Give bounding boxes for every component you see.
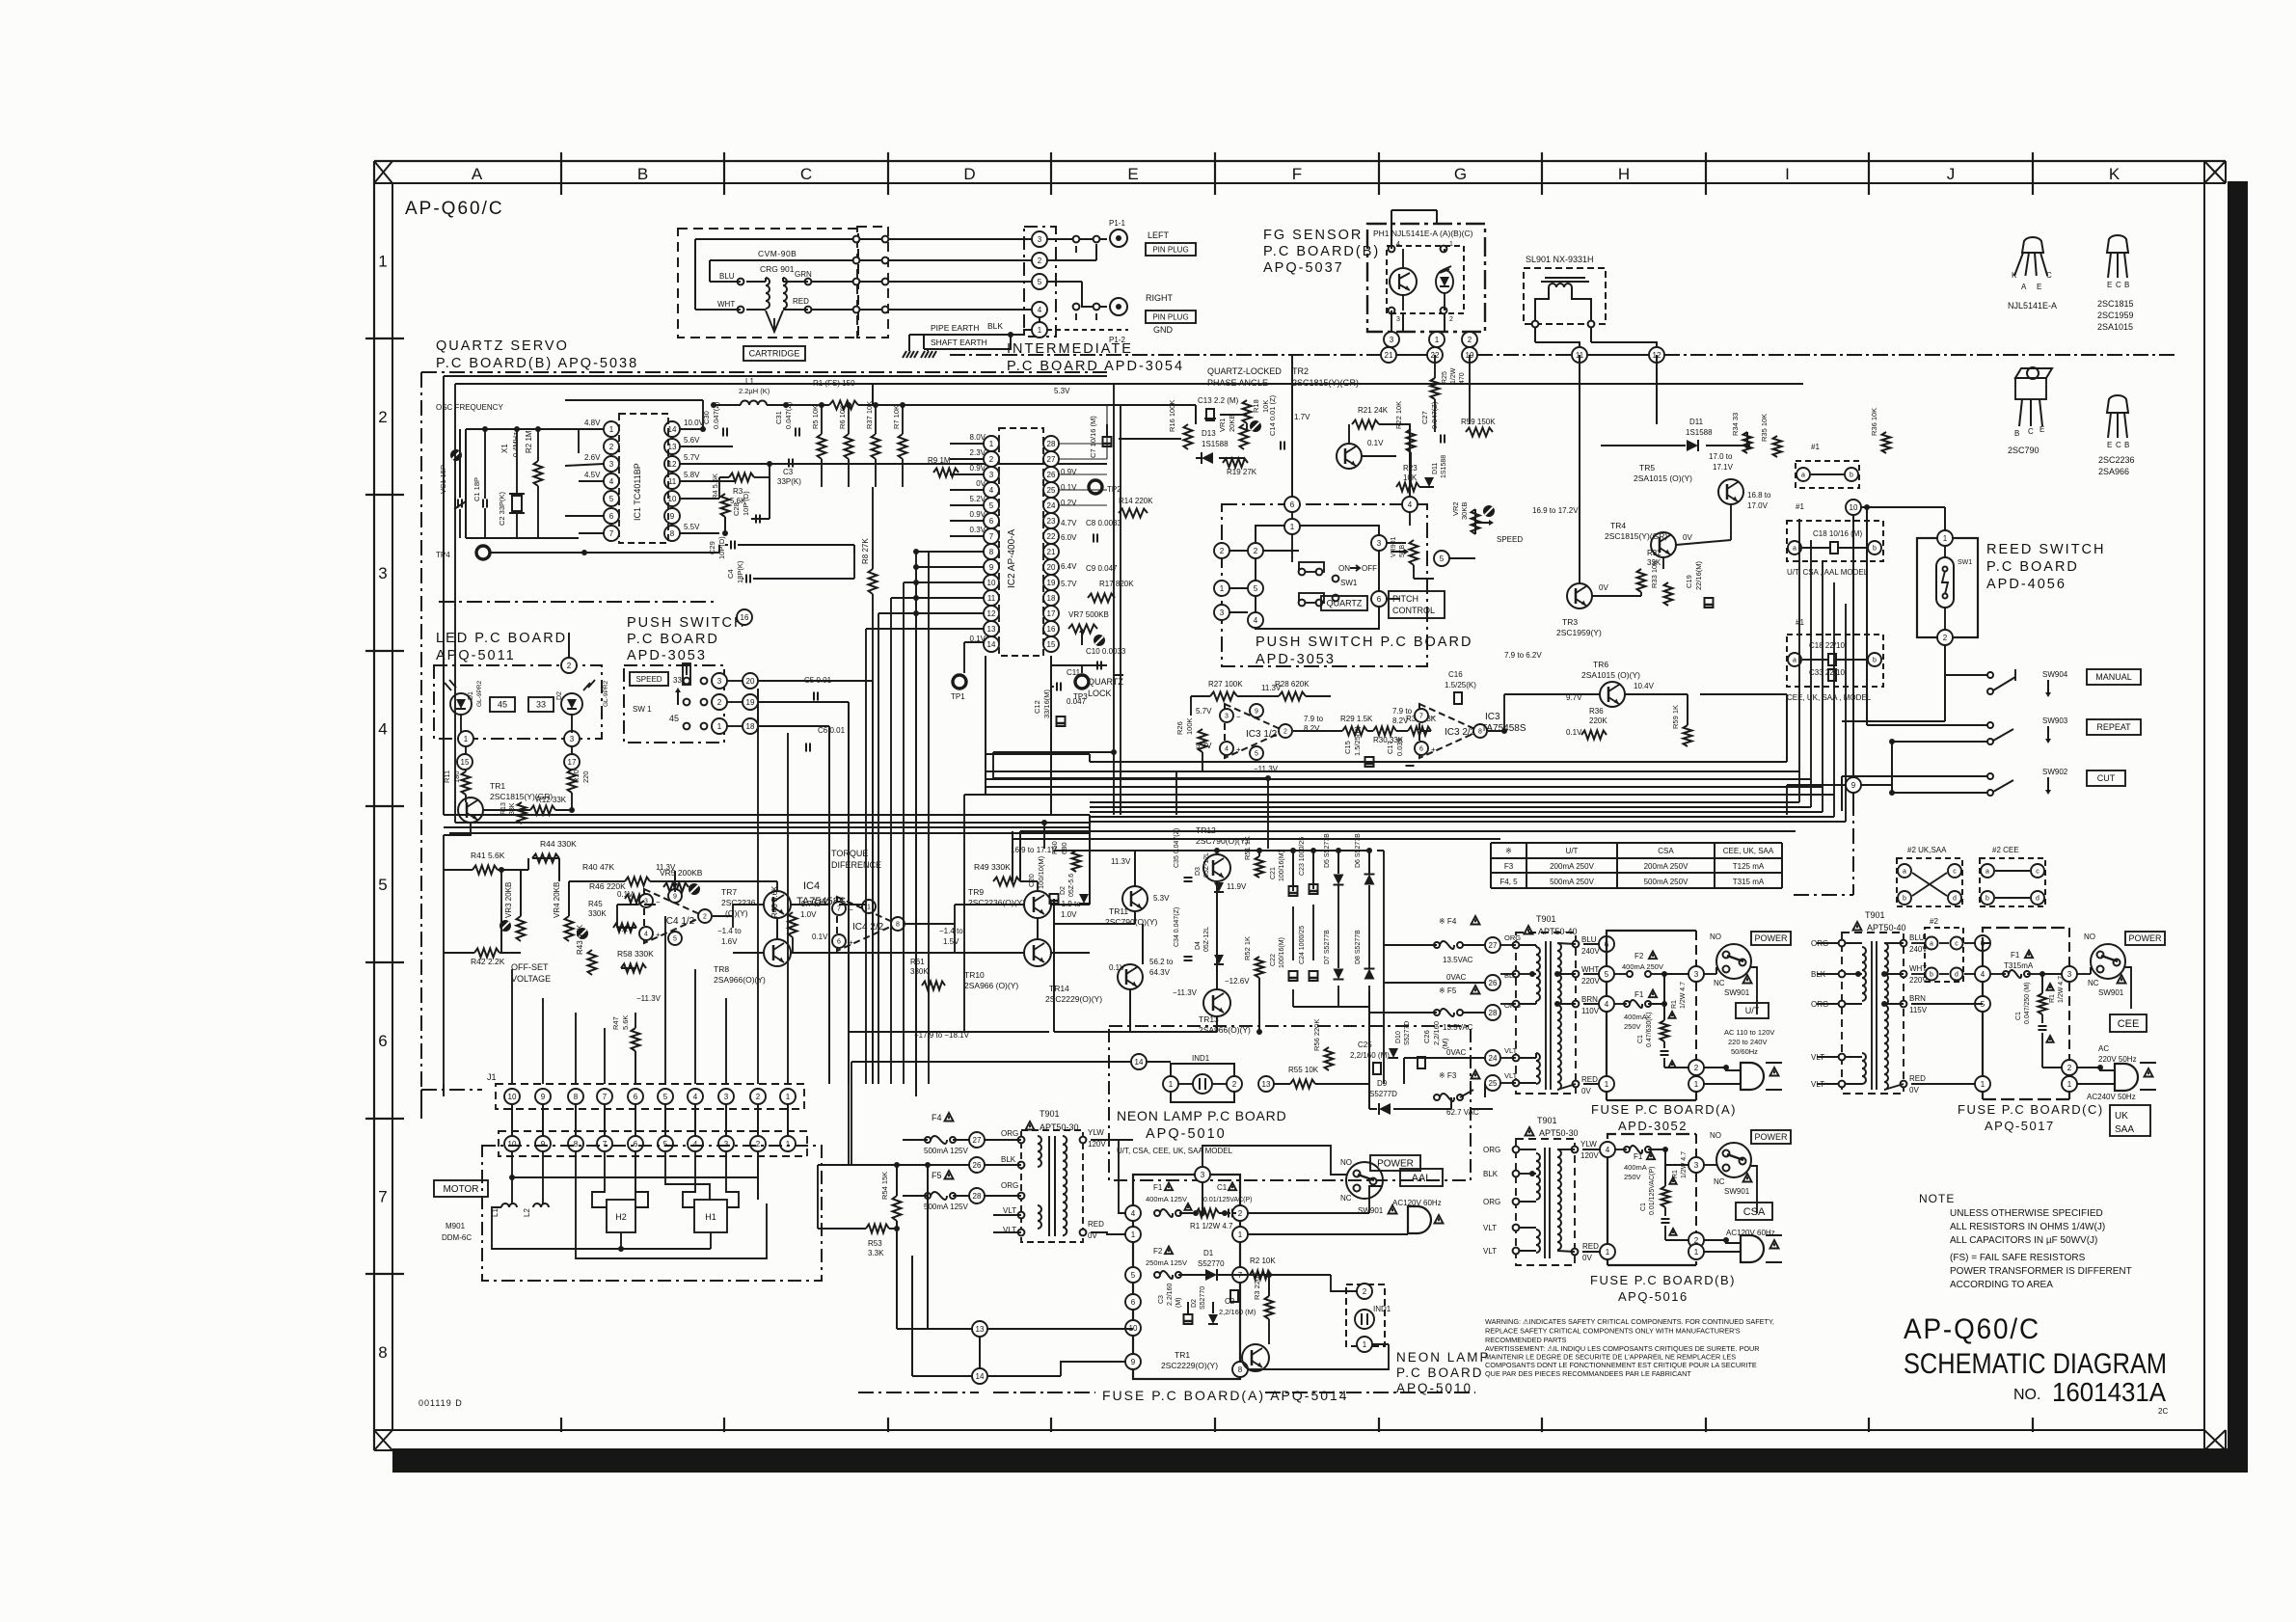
svg-text:APD-3053: APD-3053: [1256, 652, 1336, 667]
svg-text:250V: 250V: [1624, 1173, 1641, 1181]
wire push-switch drops: [757, 689, 759, 733]
svg-text:27: 27: [1489, 941, 1498, 950]
svg-text:−12.6V: −12.6V: [1225, 977, 1250, 986]
intermediate bus pins 21 22 19 11 12: [1381, 347, 1396, 363]
svg-text:5.3V: 5.3V: [1054, 387, 1070, 395]
svg-text:5: 5: [378, 876, 387, 894]
svg-text:R1: R1: [2049, 994, 2056, 1003]
svg-text:0.2V: 0.2V: [1061, 499, 1077, 507]
wire TP1 connect: [963, 642, 965, 673]
svg-text:C: C: [2116, 281, 2121, 289]
svg-text:250mA 125V: 250mA 125V: [1146, 1258, 1187, 1267]
svg-text:2: 2: [2067, 1064, 2072, 1072]
svg-text:REPEAT: REPEAT: [2096, 722, 2131, 732]
neon lamp right dashed box: [1346, 1284, 1385, 1346]
svg-text:F1: F1: [2011, 951, 2020, 960]
svg-text:C17: C17: [1386, 741, 1394, 754]
ground shaft: [921, 351, 925, 358]
transformer A primary coils: [1536, 947, 1540, 1001]
svg-text:17: 17: [568, 758, 577, 767]
svg-text:POWER: POWER: [1754, 1132, 1788, 1142]
transformer B primary coils: [1536, 1153, 1540, 1200]
svg-text:0.9V: 0.9V: [970, 510, 986, 519]
svg-text:2: 2: [756, 1093, 761, 1101]
SW902 switch: [1987, 773, 1993, 779]
svg-text:RED: RED: [1909, 1074, 1926, 1083]
pin 28 bottom: [969, 1188, 985, 1203]
svg-text:7: 7: [837, 906, 841, 913]
MANUAL box: [2087, 669, 2141, 685]
IC4 2/2 opamp: [837, 897, 897, 951]
svg-text:8: 8: [574, 1140, 579, 1149]
TR14 transistor: [1118, 964, 1143, 989]
svg-text:7: 7: [603, 1140, 608, 1149]
IC2 left pin wires: [950, 443, 984, 445]
svg-text:2: 2: [1238, 1209, 1243, 1218]
svg-text:P1-1: P1-1: [1109, 219, 1125, 228]
neon lamp dashed box: [1109, 1026, 1471, 1180]
svg-text:T315mA: T315mA: [2004, 961, 2034, 970]
svg-text:6: 6: [1131, 1298, 1136, 1307]
ground pipe: [903, 351, 906, 358]
svg-text:56.2 to: 56.2 to: [1149, 958, 1174, 966]
svg-text:4.5V: 4.5V: [584, 471, 601, 479]
svg-text:1: 1: [1605, 1080, 1609, 1089]
svg-text:1.7V: 1.7V: [1294, 413, 1310, 421]
svg-text:15: 15: [1047, 640, 1056, 649]
svg-text:R55 10K: R55 10K: [1288, 1066, 1319, 1074]
svg-text:T315 mA: T315 mA: [1733, 878, 1765, 886]
fuse board C pins right: [2062, 966, 2077, 982]
svg-text:VR1: VR1: [1218, 418, 1227, 432]
TR9 transistor: [1024, 891, 1051, 918]
svg-text:2SC790(O)(Y): 2SC790(O)(Y): [1105, 917, 1157, 927]
right pin plug: [1110, 298, 1127, 315]
svg-text:220: 220: [581, 770, 590, 783]
svg-text:8: 8: [670, 529, 675, 538]
IC1 top rail: [565, 399, 703, 401]
svg-text:0.1V: 0.1V: [1566, 728, 1582, 737]
svg-text:MOTOR: MOTOR: [443, 1184, 478, 1195]
svg-text:2SC2236: 2SC2236: [2098, 455, 2135, 465]
reed switch board box: [1917, 538, 1978, 637]
TR3 transistor: [1567, 583, 1592, 608]
svg-text:QUARTZ-LOCKED: QUARTZ-LOCKED: [1207, 366, 1282, 376]
svg-text:2: 2: [989, 455, 994, 464]
plug A: [1741, 1063, 1764, 1090]
svg-text:4: 4: [693, 1093, 698, 1101]
svg-text:R1: R1: [1671, 1000, 1678, 1009]
svg-text:MANUAL: MANUAL: [2095, 672, 2132, 682]
svg-text:C3: C3: [783, 468, 794, 476]
svg-text:R52 1K: R52 1K: [1243, 936, 1252, 960]
svg-text:0.1V: 0.1V: [617, 890, 634, 899]
svg-text:330K: 330K: [910, 967, 929, 976]
intermediate connector dash-dot box: [1024, 227, 1056, 337]
svg-text:PIN PLUG: PIN PLUG: [1152, 245, 1188, 254]
wires IC3: [1191, 695, 1210, 697]
svg-text:5.6V: 5.6V: [684, 436, 700, 445]
svg-text:33P(K): 33P(K): [777, 477, 801, 486]
TR2 transistor: [1337, 444, 1362, 469]
svg-text:4: 4: [609, 477, 614, 486]
svg-text:REED SWITCH: REED SWITCH: [1986, 542, 2106, 557]
svg-text:1S1588: 1S1588: [1441, 455, 1447, 478]
svg-text:OSC FREQUENCY: OSC FREQUENCY: [436, 403, 503, 412]
svg-text:4: 4: [1225, 746, 1229, 753]
svg-text:1: 1: [1290, 523, 1295, 531]
board 5014 pins left: [1125, 1205, 1141, 1221]
svg-text:1: 1: [464, 735, 469, 743]
svg-text:R59 1K: R59 1K: [1671, 705, 1680, 729]
svg-text:IND1: IND1: [1192, 1054, 1210, 1063]
neon lamp inner box: [1171, 1064, 1234, 1102]
svg-text:25: 25: [1047, 486, 1056, 495]
svg-text:1/2W 4.7: 1/2W 4.7: [1680, 982, 1687, 1009]
svg-text:1S1588: 1S1588: [1202, 440, 1229, 448]
svg-text:d: d: [2036, 896, 2039, 903]
svg-text:L2: L2: [523, 1208, 531, 1217]
svg-text:※ F4: ※ F4: [1439, 917, 1457, 926]
svg-text:D11: D11: [1689, 418, 1704, 426]
svg-text:10: 10: [508, 1140, 517, 1149]
bus verticals IC2-left drop bundle: [865, 629, 867, 1084]
svg-text:2SC1959: 2SC1959: [2097, 311, 2134, 320]
C1 A: [1661, 1050, 1669, 1052]
svg-text:LEFT: LEFT: [1148, 230, 1170, 240]
svg-text:7: 7: [989, 532, 994, 541]
svg-text:220K: 220K: [1589, 716, 1607, 725]
svg-text:14: 14: [668, 425, 677, 434]
svg-text:13.5VAC: 13.5VAC: [1443, 1023, 1473, 1032]
fuse board B pins: [1600, 1142, 1615, 1157]
svg-text:2: 2: [1694, 1064, 1699, 1072]
FG board pins 3 1 2: [1402, 313, 1404, 332]
svg-text:※: ※: [1505, 847, 1512, 855]
svg-text:C28: C28: [732, 502, 741, 516]
svg-text:18P(K): 18P(K): [736, 560, 744, 583]
svg-text:3: 3: [1694, 1161, 1699, 1170]
svg-text:0.1V: 0.1V: [812, 933, 828, 941]
svg-text:5: 5: [1038, 278, 1042, 286]
svg-text:SW903: SW903: [2042, 716, 2068, 725]
svg-text:R8 27K: R8 27K: [861, 538, 870, 564]
svg-text:R32: R32: [1647, 549, 1661, 557]
svg-text:5: 5: [609, 495, 614, 503]
svg-text:APQ-5017: APQ-5017: [1985, 1119, 2055, 1133]
svg-text:R35 10K: R35 10K: [1760, 414, 1769, 442]
svg-text:4: 4: [1605, 1000, 1609, 1009]
pins 13 14 bottom right: [972, 1321, 987, 1337]
svg-text:b: b: [1985, 896, 1989, 903]
svg-text:ORG: ORG: [1483, 1146, 1500, 1154]
svg-text:16: 16: [1047, 625, 1056, 634]
svg-text:28: 28: [1047, 440, 1056, 448]
POWER box B: [1751, 1130, 1791, 1144]
svg-text:3: 3: [1396, 316, 1400, 323]
svg-text:RIGHT: RIGHT: [1146, 293, 1174, 303]
svg-text:21: 21: [1047, 548, 1056, 556]
svg-text:OFF-SET: OFF-SET: [511, 962, 549, 972]
svg-text:17.1V: 17.1V: [1713, 463, 1734, 472]
svg-text:6: 6: [1290, 500, 1295, 509]
J1 connector dashed box: [496, 1084, 804, 1109]
power bus 5.3V horizontal: [1107, 404, 1119, 406]
svg-text:2: 2: [1254, 547, 1258, 555]
svg-text:5.8V: 5.8V: [684, 471, 700, 479]
svg-text:2SA1015 (O)(Y): 2SA1015 (O)(Y): [1581, 670, 1640, 680]
svg-text:C30: C30: [702, 411, 711, 424]
svg-text:13: 13: [976, 1325, 985, 1334]
svg-text:NC: NC: [1714, 979, 1725, 987]
svg-text:#1: #1: [1811, 443, 1820, 451]
transistor pinout 2SC790: [2015, 378, 2046, 399]
svg-text:QUARTZ: QUARTZ: [1088, 677, 1123, 687]
svg-text:CEE, UK, SAA: CEE, UK, SAA: [1723, 847, 1774, 855]
svg-text:+: +: [1431, 745, 1436, 754]
bus right turn-left horizontals: [1090, 801, 1799, 803]
svg-text:NO.: NO.: [2013, 1387, 2040, 1403]
C1 C: [2039, 1025, 2047, 1027]
svg-text:GRN: GRN: [795, 270, 812, 279]
svg-text:45: 45: [498, 700, 507, 710]
pin2 wire: [1047, 259, 1096, 261]
svg-text:C: C: [800, 165, 812, 183]
J1 to motor wires: [511, 1104, 513, 1136]
svg-text:+: +: [1236, 745, 1241, 754]
IC1 TC4011BP box: [619, 414, 668, 543]
svg-text:9: 9: [1255, 709, 1258, 716]
svg-text:16.8 to: 16.8 to: [1747, 491, 1771, 500]
svg-text:R50: R50: [1050, 841, 1059, 854]
svg-text:VR2: VR2: [1451, 501, 1460, 516]
fuse board C outline: [1983, 928, 2069, 951]
svg-text:8.0V: 8.0V: [970, 433, 986, 442]
svg-text:1.6V: 1.6V: [721, 937, 738, 946]
svg-text:C21: C21: [1270, 867, 1277, 879]
svg-text:4: 4: [378, 720, 387, 739]
TR7 transistor: [764, 891, 791, 918]
switch contacts: [684, 678, 690, 685]
pins 6 4 top: [1284, 497, 1300, 512]
svg-text:120V: 120V: [1580, 1151, 1599, 1160]
svg-text:CEE: CEE: [2118, 1018, 2140, 1030]
svg-text:APT50-30: APT50-30: [1539, 1128, 1579, 1138]
R53 3.3K: [866, 1225, 889, 1233]
push switch left dashed box: [624, 665, 724, 743]
svg-text:PIPE EARTH: PIPE EARTH: [931, 323, 979, 333]
QUARTZ boxed label: [1321, 596, 1367, 610]
svg-text:330K: 330K: [588, 909, 607, 918]
pin 10 and 9 right bus: [1846, 500, 1861, 515]
transformer A secondary coil: [1557, 943, 1561, 1090]
svg-text:BLK: BLK: [1483, 1170, 1499, 1178]
svg-text:6: 6: [1419, 746, 1423, 753]
wire IC3 out to row5: [1175, 771, 1177, 815]
svg-text:1: 1: [1943, 534, 1948, 543]
svg-text:2: 2: [567, 662, 572, 670]
svg-text:500mA 125V: 500mA 125V: [924, 1203, 968, 1211]
svg-text:SHAFT EARTH: SHAFT EARTH: [931, 338, 987, 347]
svg-text:C14 0.01 (Z): C14 0.01 (Z): [1268, 394, 1277, 436]
transformer A dashed box: [1516, 933, 1576, 1094]
svg-text:4.8V: 4.8V: [584, 419, 601, 427]
svg-text:9: 9: [1851, 781, 1856, 790]
motor connector dashed box: [499, 1131, 807, 1156]
svg-text:ORG: ORG: [1001, 1129, 1018, 1138]
svg-text:NC: NC: [2088, 979, 2099, 987]
svg-text:BLU: BLU: [719, 272, 735, 281]
wires push switch left: [727, 680, 743, 682]
transistor pinout 2SC2236: [2107, 395, 2128, 413]
svg-text:R3 220K: R3 220K: [1253, 1272, 1261, 1300]
svg-text:TR7: TR7: [721, 887, 737, 897]
bus connecting IC2 pins right to phase area: [1059, 443, 1107, 445]
svg-text:1: 1: [2067, 1080, 2072, 1089]
svg-text:−: −: [1236, 713, 1241, 721]
svg-text:C1: C1: [1640, 1203, 1647, 1211]
pin 28: [1485, 1005, 1500, 1020]
svg-text:YLW: YLW: [1088, 1128, 1104, 1137]
svg-text:R2 1M: R2 1M: [525, 430, 533, 453]
svg-text:0.9V: 0.9V: [970, 464, 986, 473]
svg-text:R43 47K: R43 47K: [576, 924, 584, 955]
svg-text:2: 2: [1283, 729, 1287, 736]
bus center horizontals to right section: [1050, 656, 1052, 815]
svg-text:0VAC: 0VAC: [1446, 1048, 1467, 1057]
svg-text:GL-9PR2: GL-9PR2: [476, 681, 483, 707]
bus right horizontals row4: [986, 770, 1799, 772]
svg-text:H: H: [1618, 165, 1630, 183]
svg-text:05Z-12L: 05Z-12L: [1203, 927, 1210, 952]
svg-text:2SA966 (O)(Y): 2SA966 (O)(Y): [964, 981, 1018, 990]
svg-text:SW901: SW901: [1724, 988, 1750, 997]
svg-text:R42 2.2K: R42 2.2K: [471, 957, 505, 966]
pin 14 left: [1131, 1054, 1147, 1069]
fuse board B pins right: [1688, 1157, 1704, 1173]
svg-text:TR8: TR8: [714, 964, 729, 974]
svg-text:9: 9: [670, 512, 675, 521]
svg-text:4: 4: [1408, 500, 1413, 509]
svg-text:C1: C1: [1637, 1035, 1644, 1043]
svg-text:VR901: VR901: [1391, 536, 1397, 557]
svg-text:2SA1015 (O)(Y): 2SA1015 (O)(Y): [1634, 473, 1692, 483]
svg-text:240V: 240V: [1581, 947, 1600, 956]
plug AAL: [1408, 1206, 1431, 1233]
bus right horizontals to switches: [1674, 761, 1787, 763]
svg-text:DDM-6C: DDM-6C: [442, 1233, 472, 1242]
svg-text:19: 19: [1047, 579, 1056, 587]
svg-text:TR14: TR14: [1049, 984, 1069, 993]
FG pins: [1389, 246, 1395, 253]
svg-text:0V: 0V: [1683, 533, 1692, 542]
svg-text:R27 100K: R27 100K: [1208, 680, 1243, 689]
cartridge dashed box: [678, 229, 858, 338]
bus top horizontal rails: [444, 375, 1107, 377]
svg-text:FUSE P.C BOARD(A) APQ-5014: FUSE P.C BOARD(A) APQ-5014: [1102, 1388, 1349, 1403]
svg-text:3: 3: [570, 735, 575, 743]
svg-text:9: 9: [989, 563, 994, 572]
svg-text:4: 4: [1981, 970, 1985, 979]
svg-text:P.C BOARD: P.C BOARD: [1986, 559, 2079, 575]
svg-text:APQ-5037: APQ-5037: [1263, 260, 1344, 276]
svg-text:R33 10K: R33 10K: [1650, 560, 1659, 588]
svg-text:FUSE P.C BOARD(A): FUSE P.C BOARD(A): [1591, 1102, 1737, 1117]
svg-text:TR6: TR6: [1593, 660, 1608, 669]
transformer B core: [1544, 1148, 1546, 1258]
TP1: [953, 675, 966, 689]
svg-text:2: 2: [609, 443, 614, 451]
left pin plug: [1110, 230, 1127, 247]
wires SW901 A: [1704, 973, 1716, 975]
IC1 pins left: [604, 421, 619, 437]
svg-text:16.9 to 17.2V: 16.9 to 17.2V: [1532, 506, 1579, 515]
svg-text:NO: NO: [1340, 1158, 1352, 1167]
bus dash-dot bottom boundary: [993, 1392, 1095, 1393]
svg-text:6.0V: 6.0V: [1061, 533, 1077, 542]
svg-text:SL901 NX-9331H: SL901 NX-9331H: [1526, 255, 1594, 264]
svg-text:C1 18P: C1 18P: [473, 477, 481, 501]
LED pins: [561, 658, 577, 673]
svg-text:2: 2: [756, 1140, 761, 1149]
svg-text:NC: NC: [1714, 1177, 1725, 1186]
svg-text:SW1: SW1: [1958, 559, 1972, 566]
svg-text:J: J: [1947, 165, 1956, 183]
svg-text:C19: C19: [1685, 575, 1693, 588]
svg-text:X1: X1: [500, 444, 509, 453]
svg-text:F3: F3: [1504, 862, 1514, 871]
svg-text:11: 11: [987, 594, 996, 603]
svg-text:2: 2: [1220, 547, 1225, 555]
switch mechanism: [1299, 562, 1324, 572]
svg-text:1: 1: [1363, 1340, 1367, 1349]
svg-text:b: b: [1903, 896, 1906, 903]
svg-text:3: 3: [724, 1140, 729, 1149]
svg-text:26: 26: [1489, 979, 1498, 987]
svg-text:20: 20: [1047, 563, 1056, 572]
svg-text:2: 2: [1232, 1080, 1237, 1089]
FG phototransistor: [1390, 268, 1417, 295]
svg-text:R25: R25: [1442, 371, 1448, 384]
svg-text:IC3 1/2: IC3 1/2: [1246, 729, 1278, 740]
svg-text:17.0V: 17.0V: [1747, 501, 1769, 510]
svg-text:6: 6: [634, 1093, 638, 1101]
AAL box: [1400, 1169, 1443, 1186]
svg-text:220V: 220V: [1581, 977, 1600, 986]
svg-text:R7 10K: R7 10K: [892, 405, 901, 429]
svg-text:R2 10K: R2 10K: [1250, 1257, 1276, 1265]
svg-text:17: 17: [1047, 609, 1056, 618]
transformer C core: [1871, 941, 1873, 1090]
transformer C coil wires: [1846, 942, 1862, 944]
svg-text:PUSH SWITCH P.C BOARD: PUSH SWITCH P.C BOARD: [1256, 635, 1472, 650]
svg-text:2: 2: [717, 698, 722, 707]
POWER box AAL: [1370, 1155, 1420, 1171]
svg-text:TP3: TP3: [1073, 692, 1088, 701]
svg-text:0V: 0V: [976, 479, 986, 488]
svg-text:CSA: CSA: [1743, 1206, 1766, 1218]
svg-text:C15: C15: [1343, 741, 1352, 754]
svg-text:2: 2: [1038, 257, 1042, 265]
svg-text:1601431A: 1601431A: [2052, 1377, 2166, 1407]
svg-text:115V: 115V: [1909, 1006, 1928, 1014]
svg-text:#2: #2: [1930, 917, 1938, 926]
svg-text:TR12: TR12: [1196, 825, 1216, 835]
svg-text:5.7V: 5.7V: [1061, 580, 1077, 588]
fuse board B outline: [1607, 1134, 1696, 1157]
svg-text:NOTE: NOTE: [1919, 1192, 1955, 1205]
svg-text:A: A: [472, 165, 483, 183]
